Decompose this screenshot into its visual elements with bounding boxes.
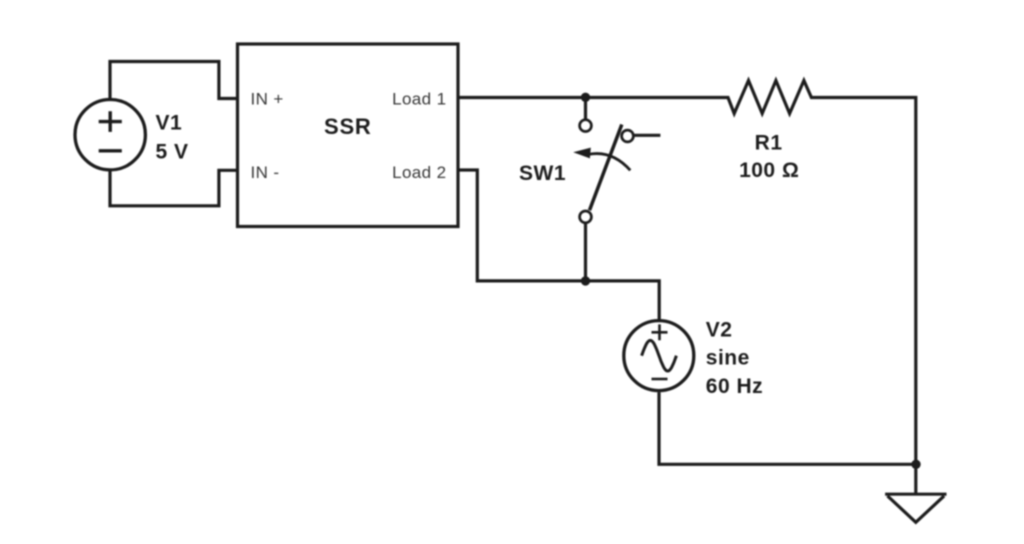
svg-text:Load 1: Load 1 xyxy=(392,89,446,108)
label V1 5 V xyxy=(156,112,189,164)
node junction at ground xyxy=(911,460,920,469)
svg-text:R1: R1 xyxy=(755,132,783,155)
svg-text:IN -: IN - xyxy=(251,163,280,182)
ground xyxy=(885,464,946,522)
node junction at switch top xyxy=(581,93,590,102)
node junction at switch bottom xyxy=(581,276,590,285)
voltage source V1 xyxy=(75,100,145,170)
svg-text:V1: V1 xyxy=(156,112,183,135)
svg-text:5 V: 5 V xyxy=(156,141,189,164)
wire Load 2 to V2 xyxy=(458,170,659,320)
svg-text:sine: sine xyxy=(706,347,750,370)
svg-text:100 Ω: 100 Ω xyxy=(739,159,799,182)
svg-text:V2: V2 xyxy=(706,319,733,342)
wire V1 top to IN+ xyxy=(110,62,238,99)
wire V2 bottom to ground rail xyxy=(659,392,916,464)
svg-text:Load 2: Load 2 xyxy=(392,163,446,182)
svg-text:SSR: SSR xyxy=(324,114,372,139)
SSR box xyxy=(238,44,459,227)
svg-text:IN +: IN + xyxy=(251,89,284,108)
switch SW1 xyxy=(573,97,660,281)
voltage source V2 xyxy=(624,321,694,391)
label V2 sine 60 Hz xyxy=(706,319,763,399)
svg-text:60 Hz: 60 Hz xyxy=(706,375,763,398)
svg-text:SW1: SW1 xyxy=(519,162,566,185)
resistor R1 label xyxy=(739,132,799,183)
wire Load 1 to resistor and right rail xyxy=(458,81,916,465)
wire V1 bottom to IN- xyxy=(110,170,238,206)
